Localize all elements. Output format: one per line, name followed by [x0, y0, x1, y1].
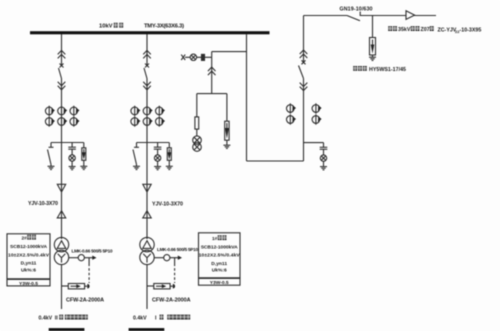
dashed link to busway (feeder 1) — [174, 258, 176, 283]
ground (earthing switch, feeder 1) — [133, 166, 140, 169]
0.4kV busbar (section I) — [129, 328, 165, 331]
drawout contact (upper) of breaker QF1 — [143, 50, 151, 58]
CFW busway (feeder 1) — [147, 284, 175, 289]
current transformer TA2-2 — [58, 106, 67, 116]
terminal x mark (PT bay line end) — [181, 55, 185, 60]
svg-text:LMK-0.66 500/5 5P10: LMK-0.66 500/5 5P10 — [157, 247, 198, 252]
cable terminal (down) feeder 1 — [143, 184, 151, 192]
svg-text:Y3W-0.5: Y3W-0.5 — [210, 280, 229, 286]
cable terminal (up) feeder 1 — [143, 211, 151, 218]
svg-text:YJV-10-3X70: YJV-10-3X70 — [28, 201, 58, 207]
label: transformer 2# data — [8, 235, 50, 287]
disconnector GN19-10/630 blade — [347, 12, 360, 21]
LV current transformer LMK (feeder 2) — [78, 255, 84, 261]
wire with arrow to LV switchgear (feeder 1) — [170, 256, 182, 260]
ground (arrester, feeder 1) — [166, 166, 173, 169]
fuse FU (PT primary) — [195, 94, 199, 136]
label: cable ZC-YJV22-10-3X95 — [438, 27, 482, 34]
svg-text:0.4kV: 0.4kV — [39, 315, 53, 321]
svg-text:35kV: 35kV — [398, 27, 411, 33]
svg-text:Z07: Z07 — [421, 27, 430, 33]
wire: 10kV bus to circuit breaker QF1 (feeder 1) — [146, 34, 148, 66]
wire: breaker to cable terminal (feeder 1) — [146, 79, 148, 240]
surge arrester F1 (feeder 1) — [167, 143, 171, 167]
current transformer TA1-4 — [131, 116, 141, 126]
label: reserved 35kV main substation Z07 panel — [388, 26, 434, 33]
earthing switch (feeder 1) — [133, 143, 139, 167]
power flow arrow to 35kV station — [406, 11, 415, 20]
svg-text:SCB12-1000kVA: SCB12-1000kVA — [10, 244, 47, 250]
label: 0.4kV section II busway — [39, 315, 88, 322]
svg-text:-10-3X95: -10-3X95 — [460, 27, 482, 33]
ground (PT bay arrester) — [223, 145, 230, 148]
wire: transformer T2 to 0.4kV busbar — [61, 265, 63, 309]
wire with arrow to LV switchgear (feeder 2) — [84, 256, 96, 260]
wire: riser from 10kV bus to incoming link — [246, 34, 248, 161]
svg-text:D,yn11: D,yn11 — [21, 261, 37, 267]
drawout contact (lower) of breaker QF2 — [58, 82, 66, 90]
svg-text:TMY-3X(63X6.3): TMY-3X(63X6.3) — [144, 24, 184, 30]
10kV busbar — [30, 31, 270, 34]
ground (incoming live display) — [320, 167, 327, 170]
incoming drawout contact (upper) — [300, 50, 308, 58]
incoming current transformer TA-c — [287, 114, 297, 124]
svg-text:GN19-10/630: GN19-10/630 — [340, 7, 373, 13]
incoming circuit breaker (x mark and blade) — [299, 60, 306, 78]
current transformer TA1-1 — [131, 106, 141, 116]
svg-text:Y3W-0.5: Y3W-0.5 — [19, 281, 38, 287]
ground (line arrester) — [369, 57, 376, 60]
wire: bottom link riser to incoming feeder — [247, 160, 304, 162]
capacitive live-line display device (incoming) — [320, 143, 328, 167]
LV current transformer LMK (feeder 1) — [164, 255, 170, 261]
incoming current transformer TA-b — [312, 103, 322, 113]
current transformer TA2-1 — [45, 106, 55, 116]
parameter box: transformer 2# — [7, 234, 50, 286]
circuit breaker QF1 (x mark and blade) — [144, 64, 149, 79]
svg-text:ZC-YJV: ZC-YJV — [438, 27, 457, 33]
label: transformer 1# data — [199, 235, 241, 286]
svg-text:10±2X2.5%/0.4kV: 10±2X2.5%/0.4kV — [8, 253, 50, 259]
label: arrester HY5WS1-17/45 — [353, 66, 406, 73]
wire: breaker to cable terminal (feeder 2) — [61, 79, 63, 240]
svg-text:2#: 2# — [22, 235, 28, 241]
label: 10kV bus — [99, 23, 123, 30]
lamp / indicator circle-x (PT bay) — [190, 54, 196, 60]
svg-text:1#: 1# — [212, 236, 218, 242]
wire: incoming overhead line — [304, 16, 348, 63]
ground (live display, feeder 2) — [69, 167, 76, 170]
drawout contact (PT truck) — [208, 67, 216, 75]
transformer T1 (Dyn11, two-winding) — [140, 237, 154, 264]
wire: tap line for earthing switch / live display / arrester (feeder 2) — [51, 142, 84, 144]
svg-text:CFW-2A-2000A: CFW-2A-2000A — [152, 298, 191, 304]
CFW busway (feeder 2) — [62, 284, 90, 289]
surge arrester HY5WS1-17/45 (incoming line) — [370, 16, 376, 58]
wire: transformer T1 to 0.4kV busbar — [146, 265, 148, 309]
wire: 10kV bus to circuit breaker QF2 (feeder 2) — [61, 34, 63, 66]
earthing switch (feeder 2) — [48, 143, 54, 167]
svg-text:CFW-2A-2000A: CFW-2A-2000A — [66, 298, 104, 304]
current transformer TA2-5 — [58, 116, 67, 126]
svg-text:10kV: 10kV — [99, 24, 113, 30]
cable terminal (down) feeder 2 — [57, 184, 65, 192]
svg-text:Uk%:6: Uk%:6 — [212, 268, 227, 274]
svg-text:Uk%:6: Uk%:6 — [21, 268, 36, 274]
svg-text:HY5WS1-17/45: HY5WS1-17/45 — [369, 67, 406, 73]
svg-text:D,yn11: D,yn11 — [211, 261, 227, 267]
current transformer TA1-2 — [143, 106, 153, 116]
capacitive live-line display device (feeder 2) — [68, 143, 76, 167]
ground (arrester, feeder 2) — [80, 166, 87, 169]
svg-text:10±2X2.5%/0.4kV: 10±2X2.5%/0.4kV — [199, 253, 241, 259]
dashed link to busway (feeder 2) — [88, 258, 90, 283]
surge arrester F2 (feeder 2) — [82, 143, 86, 167]
wire: tap line for earthing switch / live display / arrester (feeder 1) — [137, 142, 170, 144]
drawout contact (lower) of breaker QF1 — [143, 82, 151, 90]
ground (live display, feeder 1) — [154, 167, 161, 170]
surge arrester (PT bay) — [225, 94, 229, 145]
capacitive live-line display device (feeder 1) — [154, 143, 162, 167]
label: 0.4kV section I busway — [133, 315, 190, 322]
wire: line to reserved 35kV feeder — [360, 15, 436, 17]
svg-text:LMK-0.66 500/5 5P10: LMK-0.66 500/5 5P10 — [72, 249, 113, 254]
wire: tap to incoming live display — [304, 142, 324, 144]
parameter box: transformer 1# — [199, 233, 241, 285]
svg-text:0.4kV: 0.4kV — [133, 315, 147, 321]
wire: incoming breaker to link — [303, 78, 305, 161]
current transformer TA1-6 — [156, 116, 166, 126]
incoming current transformer TA-a — [287, 103, 297, 113]
current transformer TA2-6 — [70, 116, 80, 126]
ground (earthing switch, feeder 2) — [48, 166, 55, 169]
transformer T2 (Dyn11, two-winding) — [54, 237, 68, 264]
current transformer TA1-3 — [156, 106, 166, 116]
incoming drawout contact (lower) — [300, 83, 308, 91]
drawout contact (upper) of breaker QF2 — [58, 50, 66, 58]
wire: LV side of transformer T2 with metering CT — [69, 257, 79, 259]
wire: LV side of transformer T1 with metering CT — [154, 257, 164, 259]
circuit breaker QF2 (x mark and blade) — [59, 64, 64, 79]
incoming current transformer TA-d — [312, 114, 322, 124]
voltage transformer TV (two windings) — [193, 136, 202, 151]
0.4kV busbar (section II) — [49, 328, 85, 331]
wire: PT drawout stem — [211, 57, 213, 93]
cable terminal (up) feeder 2 — [57, 211, 65, 218]
wire: PT branch line — [197, 93, 227, 95]
wire: PT bay tap with jog — [185, 52, 247, 58]
current transformer TA2-3 — [70, 106, 80, 116]
current transformer TA1-5 — [143, 116, 153, 126]
drawout contact bar (PT bay) — [202, 54, 205, 60]
svg-text:SCB12-1000kVA: SCB12-1000kVA — [201, 244, 238, 250]
svg-text:YJV-10-3X70: YJV-10-3X70 — [152, 201, 183, 207]
current transformer TA2-4 — [45, 116, 55, 126]
